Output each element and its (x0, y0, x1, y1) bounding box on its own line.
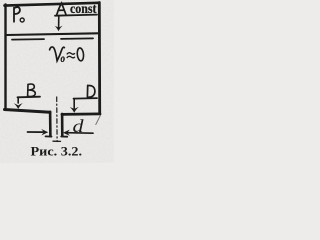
svg-text:d: d (73, 116, 84, 136)
svg-text:const: const (70, 1, 97, 16)
svg-text:Рис. 3.2.: Рис. 3.2. (31, 143, 83, 158)
svg-text:o: o (61, 51, 66, 65)
